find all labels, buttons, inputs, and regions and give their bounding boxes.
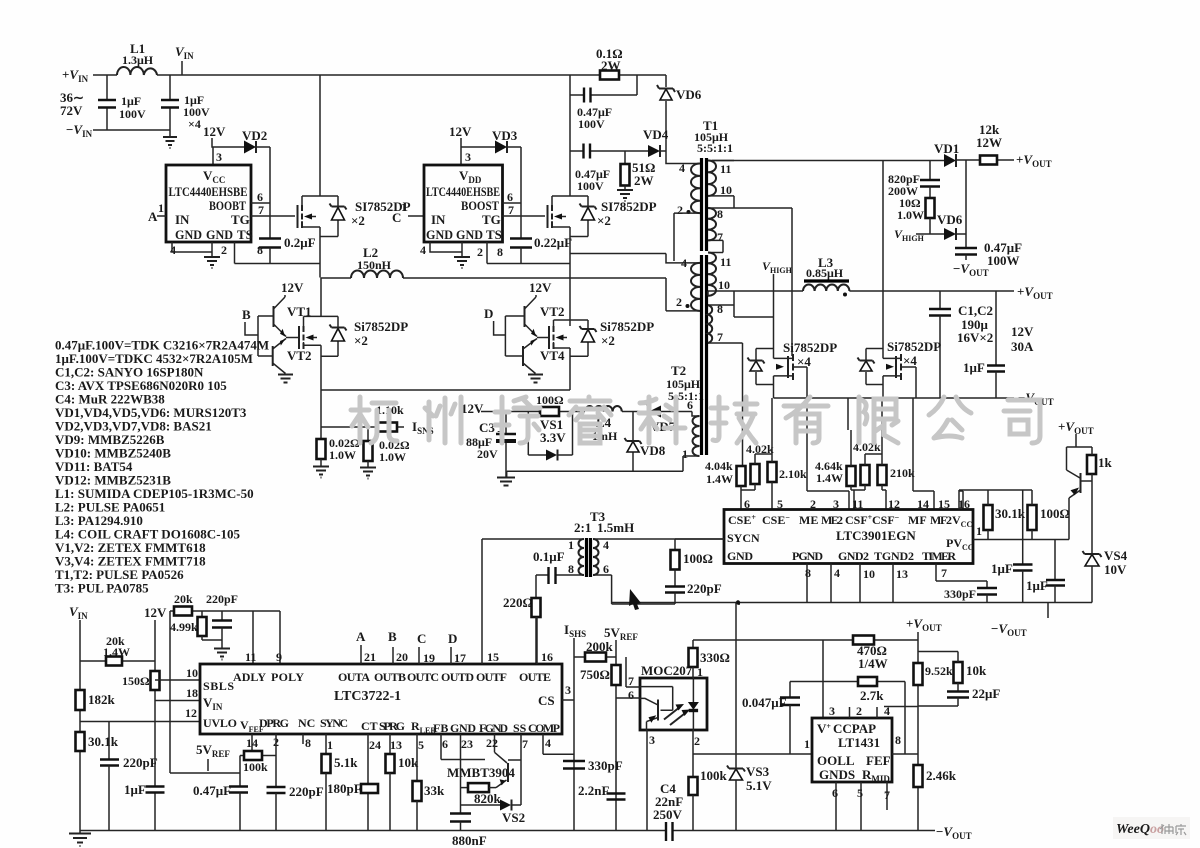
transformer T2 core	[702, 255, 707, 455]
svg-text:DPRG: DPRG	[259, 716, 289, 730]
svg-text:T2: T2	[671, 363, 686, 378]
capacitor C1 C2 190u	[939, 291, 941, 309]
svg-text:100W: 100W	[987, 253, 1020, 268]
svg-text:2.46k: 2.46k	[926, 768, 957, 783]
wire ISNS y427	[321, 390, 404, 427]
svg-text:2.10k: 2.10k	[779, 467, 807, 481]
capacitor 180pF (ct)	[367, 734, 369, 831]
capacitor 330pF (cs)	[563, 761, 585, 769]
diode body D2 (cell2)	[570, 196, 588, 237]
svg-text:1.4W: 1.4W	[816, 471, 843, 485]
transistor Q7 MOSFET (D cell)	[537, 337, 549, 339]
wire pin3 drop x823	[822, 640, 824, 718]
diode VS2	[461, 804, 522, 806]
resistor 820k	[461, 787, 469, 789]
svg-text:12V: 12V	[529, 280, 552, 295]
svg-text:VT4: VT4	[540, 348, 565, 363]
svg-text:2.7k: 2.7k	[860, 688, 884, 703]
capacitor 1uF 100V (first)	[98, 100, 116, 108]
svg-text:20V: 20V	[477, 447, 498, 461]
svg-text:TGND2: TGND2	[874, 549, 914, 563]
svg-text:9: 9	[276, 650, 282, 664]
wire source common y390	[321, 389, 570, 391]
svg-text:12V: 12V	[144, 605, 167, 620]
wire 470R feed y640	[693, 639, 918, 641]
svg-text:0.85μH: 0.85μH	[806, 266, 844, 280]
svg-text:100V: 100V	[578, 117, 605, 131]
wire rail A x320 upper	[319, 75, 321, 278]
svg-text:SBLS: SBLS	[203, 679, 234, 693]
wire pins 4,2 ground U	[172, 242, 212, 252]
svg-text:7: 7	[508, 203, 514, 217]
svg-text:1μF: 1μF	[121, 94, 141, 108]
svg-text:VT2: VT2	[540, 304, 565, 319]
svg-text:LTC3722-1: LTC3722-1	[334, 689, 401, 704]
transistor Q1 MOSFET SI7852DP #1	[297, 205, 299, 228]
svg-text:SPRG: SPRG	[379, 719, 405, 733]
svg-text:VD2: VD2	[242, 128, 267, 143]
svg-text:20k: 20k	[174, 592, 193, 606]
svg-text:COMP: COMP	[528, 721, 560, 735]
diode body D1 (cell1)	[320, 196, 338, 237]
capacitor 0.47uF 100V (upper)	[570, 75, 637, 95]
svg-text:7: 7	[717, 330, 723, 344]
svg-text:5.1k: 5.1k	[334, 755, 358, 770]
wire pins 11,9 up	[253, 611, 280, 664]
op-amp U1 LTC4440 #1 box	[166, 165, 251, 242]
svg-text:PGND: PGND	[792, 549, 823, 563]
capacitor 22uF	[947, 692, 969, 698]
svg-text:8: 8	[717, 207, 723, 221]
svg-text:3: 3	[216, 150, 222, 164]
svg-text:SI7852DP: SI7852DP	[601, 199, 657, 214]
ground driver1	[204, 257, 220, 268]
svg-text:1.4W: 1.4W	[706, 472, 733, 486]
resistor 210k	[878, 465, 887, 485]
svg-text:220pF: 220pF	[687, 581, 722, 596]
svg-text:5:5:1:1: 5:5:1:1	[668, 389, 704, 403]
svg-text:12V: 12V	[449, 124, 472, 139]
svg-text:UVLO: UVLO	[203, 716, 237, 730]
svg-text:GND2: GND2	[838, 549, 869, 563]
svg-text:5.1V: 5.1V	[746, 778, 772, 793]
svg-text:MMBT3904: MMBT3904	[447, 765, 515, 780]
svg-text:×2: ×2	[601, 333, 615, 348]
wire output rail y160	[712, 159, 1014, 162]
svg-text:750Ω: 750Ω	[580, 667, 610, 682]
svg-text:GND: GND	[727, 549, 753, 563]
svg-text:12V: 12V	[461, 401, 484, 416]
transistor VT2 (lower of B pair)	[272, 346, 274, 366]
resistor 10R 1.0W	[929, 187, 931, 199]
svg-text:7: 7	[628, 674, 634, 688]
svg-text:22μF: 22μF	[972, 686, 1000, 701]
resistor 0.02R 1.0W (left)	[320, 427, 322, 439]
op-amp U2 LTC4440 #2 box	[424, 165, 503, 242]
svg-text:CCPAP: CCPAP	[833, 721, 876, 736]
transformer T2 primary winding 4-2	[570, 254, 700, 263]
ground 0.02R right	[360, 468, 376, 479]
svg-text:19: 19	[423, 651, 435, 665]
wire boost vertical x270	[269, 147, 271, 238]
capacitor 1uF (pvcc 1)	[1022, 490, 1024, 565]
svg-text:5:5:1:1: 5:5:1:1	[697, 141, 733, 155]
svg-text:VD1: VD1	[934, 141, 959, 156]
svg-text:6: 6	[603, 562, 609, 576]
svg-text:Si7852DP: Si7852DP	[887, 339, 941, 354]
svg-text:4: 4	[603, 538, 609, 552]
diode VD2	[213, 146, 270, 148]
transistor Q5 (pvcc boost)	[1067, 434, 1093, 478]
capacitor 0.2uF	[259, 239, 281, 248]
svg-text:23: 23	[461, 737, 473, 751]
wire VS3 vertical	[735, 603, 737, 769]
svg-text:6: 6	[257, 190, 263, 204]
op-amp U3 LTC3901EGN box	[724, 510, 973, 564]
svg-text:POLY: POLY	[271, 670, 304, 684]
wire boost vertical x521	[520, 147, 522, 238]
wire LT1431 pin1 y754	[693, 753, 812, 755]
resistor 470R 1/4W	[853, 636, 874, 645]
svg-text:9.52k: 9.52k	[925, 664, 953, 678]
capacitor 1uF (pvcc 2)	[1054, 540, 1056, 581]
svg-text:180pF: 180pF	[327, 781, 362, 796]
capacitor 0.47uF 100V (lower)	[570, 150, 648, 152]
svg-text:GND: GND	[206, 227, 233, 242]
svg-text:1: 1	[568, 538, 574, 552]
diode VD8	[632, 412, 634, 441]
svg-text:1: 1	[976, 524, 982, 538]
svg-text:C: C	[417, 631, 426, 646]
svg-text:0.47μF: 0.47μF	[193, 783, 231, 798]
svg-text:VD4: VD4	[643, 127, 669, 142]
capacitor 220pF (uvlo)	[108, 722, 110, 760]
wire T2 8-10 tie to VHIGH	[734, 316, 774, 318]
svg-text:2: 2	[694, 734, 700, 748]
svg-text:1.3μH: 1.3μH	[122, 53, 154, 67]
capacitor 220pF (snubber)	[665, 587, 685, 593]
transformer T1 secondary winding 11-10	[708, 160, 734, 162]
ground VT4	[528, 375, 543, 383]
wire pin6 BOOST	[251, 202, 270, 204]
transistor VT4	[522, 346, 524, 366]
svg-text:17: 17	[454, 651, 466, 665]
wire -VOUT drop from rail	[1047, 603, 1049, 619]
svg-text:30.1k: 30.1k	[995, 506, 1026, 521]
svg-text:150Ω: 150Ω	[122, 674, 150, 688]
wire VHIGH vertical x773	[773, 274, 775, 349]
watermark weeqoo	[1113, 817, 1190, 839]
svg-text:0.22μF: 0.22μF	[534, 235, 572, 250]
svg-text:C1,C2: C1,C2	[958, 303, 993, 318]
svg-text:8: 8	[257, 243, 263, 257]
svg-text:TG: TG	[482, 212, 501, 227]
resistor 51R 2W	[624, 151, 626, 164]
wire 12V to pin3 (driver2)	[460, 138, 462, 165]
svg-text:×2: ×2	[354, 333, 368, 348]
svg-text:8: 8	[895, 733, 901, 747]
transistor Q4 sync MOSFET cell B	[866, 349, 883, 385]
svg-text:B: B	[388, 629, 397, 644]
svg-text:100Ω: 100Ω	[683, 551, 713, 566]
svg-text:8: 8	[717, 302, 723, 316]
wire x966 vertical	[965, 161, 967, 249]
svg-text:8: 8	[805, 566, 811, 580]
diode MOC LED	[692, 678, 694, 731]
wire 12V bias y411	[481, 411, 687, 413]
svg-text:10V: 10V	[1104, 562, 1127, 577]
resistor 12k 12W	[980, 156, 997, 165]
svg-text:×4: ×4	[797, 354, 811, 369]
svg-text:12: 12	[185, 706, 197, 720]
diode VS3 zener	[730, 769, 743, 780]
svg-text:8: 8	[568, 562, 574, 576]
svg-text:2W: 2W	[601, 58, 621, 73]
svg-text:Si7852DP: Si7852DP	[600, 319, 654, 334]
svg-text:C3: C3	[479, 420, 495, 435]
svg-text:FB: FB	[433, 721, 448, 735]
svg-text:2: 2	[677, 203, 683, 217]
svg-text:11: 11	[720, 255, 731, 269]
svg-text:OUTE: OUTE	[519, 670, 551, 684]
svg-text:VD6: VD6	[676, 87, 702, 102]
svg-text:GND: GND	[426, 227, 453, 242]
svg-text:11: 11	[720, 162, 731, 176]
capacitor 820pF 200W	[929, 161, 931, 181]
wire feedback vertical x918	[917, 640, 919, 831]
capacitor 0.47uF (vref)	[239, 773, 241, 787]
svg-text:100V: 100V	[119, 107, 146, 121]
svg-text:A: A	[356, 629, 366, 644]
transistor Q3 sync MOSFET cell A	[756, 349, 774, 385]
svg-text:T3: PUL PA0785: T3: PUL PA0785	[55, 581, 149, 596]
svg-text:7: 7	[258, 203, 264, 217]
svg-text:4: 4	[545, 736, 551, 750]
svg-text:LTC3901EGN: LTC3901EGN	[836, 528, 916, 543]
svg-text:4: 4	[681, 256, 687, 270]
arrow LED light 1	[664, 709, 678, 720]
svg-text:6: 6	[507, 190, 513, 204]
wire bias return y471	[507, 471, 683, 477]
svg-text:4.04k: 4.04k	[705, 459, 733, 473]
ground 0.02R left	[313, 467, 329, 478]
pointer blob	[629, 589, 641, 610]
svg-text:5: 5	[418, 738, 424, 752]
svg-text:72V: 72V	[60, 103, 83, 118]
svg-text:ADLY: ADLY	[233, 670, 266, 684]
svg-text:IN: IN	[431, 212, 446, 227]
svg-text:C: C	[392, 210, 401, 225]
svg-text:6: 6	[832, 786, 838, 800]
svg-text:5: 5	[857, 786, 863, 800]
svg-text:FEF: FEF	[866, 753, 891, 768]
svg-text:1.0W: 1.0W	[379, 450, 406, 464]
svg-text:16V×2: 16V×2	[957, 330, 993, 345]
resistor 100k (moc)	[689, 777, 698, 795]
diode VD6 (top)	[665, 75, 667, 151]
svg-text:330Ω: 330Ω	[700, 650, 730, 665]
svg-text:1k: 1k	[1098, 455, 1113, 470]
svg-text:NC: NC	[298, 716, 315, 730]
svg-text:TG: TG	[231, 212, 250, 227]
ground input	[163, 137, 177, 148]
wire T3 top y539	[482, 538, 724, 540]
svg-text:VS3: VS3	[746, 764, 770, 779]
ground VIN rail	[69, 834, 91, 847]
svg-text:33k: 33k	[424, 783, 445, 798]
wire rail A lower	[320, 278, 322, 391]
svg-text:10: 10	[186, 666, 198, 680]
svg-text:30.1k: 30.1k	[88, 734, 119, 749]
svg-text:2: 2	[221, 243, 227, 257]
svg-text:×4: ×4	[903, 353, 917, 368]
svg-text:880nF: 880nF	[452, 833, 487, 848]
svg-text:VS2: VS2	[502, 810, 525, 825]
wire 12V rail x155	[154, 620, 156, 831]
capacitor 880nF	[460, 760, 462, 814]
svg-text:2:1: 2:1	[574, 520, 591, 535]
svg-text:OUTF: OUTF	[476, 670, 507, 684]
svg-text:1: 1	[804, 737, 810, 751]
svg-text:250V: 250V	[653, 807, 683, 822]
svg-text:LTC4440EHSBE: LTC4440EHSBE	[426, 184, 500, 199]
resistor 100k (vref)	[240, 734, 276, 756]
wire ISHS vertical x574	[573, 638, 575, 831]
wire top rail y75	[93, 74, 666, 76]
wire +VOUT main y291	[730, 290, 1014, 292]
resistor 2.7k	[858, 677, 877, 686]
resistor 10k (fb)	[954, 662, 963, 683]
svg-text:MF: MF	[908, 513, 927, 527]
diode body (D cell)	[570, 320, 588, 356]
wire 5VREF vertical x616	[615, 640, 617, 831]
svg-text:×4: ×4	[188, 117, 201, 131]
wire LT1431 bottom pins	[836, 782, 887, 831]
svg-text:100k: 100k	[243, 760, 268, 774]
svg-text:OOLL: OOLL	[817, 753, 855, 768]
transformer T2 secondary winding 11-10	[708, 253, 716, 296]
svg-text:TIMER: TIMER	[922, 549, 956, 563]
transformer T1 primary winding 4-2	[666, 151, 700, 164]
svg-text:1: 1	[158, 201, 164, 215]
wire T3 sec 6 to y604	[593, 575, 675, 604]
svg-text:3: 3	[565, 683, 571, 697]
resistor 100R (3901)	[1028, 505, 1037, 530]
transistor VT1	[273, 306, 275, 327]
transistor Q6 MOSFET (B cell)	[286, 337, 299, 339]
svg-text:12W: 12W	[976, 135, 1002, 150]
svg-text:220Ω: 220Ω	[503, 595, 533, 610]
transformer T3 core	[587, 538, 591, 577]
svg-text:7: 7	[941, 566, 947, 580]
wire -VIN y130	[93, 130, 170, 136]
svg-text:ME2: ME2	[821, 513, 843, 527]
svg-text:10: 10	[718, 278, 730, 292]
resistor 330R	[692, 640, 694, 648]
svg-text:GND: GND	[175, 227, 202, 242]
svg-text:11: 11	[245, 650, 256, 664]
svg-text:12V: 12V	[1011, 324, 1034, 339]
transistor MOC phototransistor	[640, 687, 673, 711]
resistor 0.1R 2W sense	[600, 71, 619, 80]
svg-text:7: 7	[717, 230, 723, 244]
resistor 100R (snubber)	[674, 539, 676, 550]
capacitor 1uF 100V x4 (second)	[161, 100, 179, 108]
svg-text:6: 6	[628, 688, 634, 702]
wire SYCN from T3	[675, 538, 724, 540]
resistor 30.1k (uvlo)	[76, 732, 85, 751]
svg-text:Si7852DP: Si7852DP	[354, 319, 408, 334]
svg-text:2: 2	[856, 704, 862, 718]
svg-text:1μF: 1μF	[991, 561, 1013, 576]
wire pin6 BOOST (driver2)	[503, 202, 522, 204]
svg-text:220pF: 220pF	[123, 755, 158, 770]
diode VD3	[461, 146, 521, 148]
wire pin2 pin3 entries	[807, 398, 849, 509]
svg-text:10: 10	[720, 183, 732, 197]
svg-text:VD3: VD3	[492, 128, 518, 143]
svg-text:24: 24	[369, 738, 381, 752]
svg-text:LTC4440EHSBE: LTC4440EHSBE	[169, 184, 248, 199]
svg-text:ME: ME	[799, 513, 818, 527]
wire -VOUT rail y398	[774, 397, 1015, 399]
svg-text:Si7852DP: Si7852DP	[783, 340, 837, 355]
svg-text:6: 6	[442, 737, 448, 751]
svg-text:1μF: 1μF	[963, 360, 985, 375]
svg-text:4: 4	[834, 566, 840, 580]
transformer T2 secondary winding 8-7	[708, 291, 734, 317]
svg-text:VD8: VD8	[640, 443, 666, 458]
svg-text:WeeQoo: WeeQoo	[1116, 822, 1164, 837]
svg-text:220pF: 220pF	[206, 592, 238, 606]
capacitor 220pF (dprg)	[275, 734, 277, 787]
svg-text:4.99k: 4.99k	[170, 620, 198, 634]
svg-text:FGND: FGND	[479, 721, 508, 735]
svg-text:0.047μF: 0.047μF	[742, 695, 787, 710]
svg-text:10k: 10k	[966, 663, 987, 678]
wire LTC3901 bottom pins	[807, 564, 893, 603]
inductor L1	[117, 67, 157, 75]
svg-text:22: 22	[486, 736, 498, 750]
transistor VT2 (upper of D pair)	[524, 306, 526, 327]
wire pin16 entry	[959, 491, 963, 509]
resistor 10k (sprg)	[389, 734, 391, 754]
svg-text:3: 3	[649, 733, 655, 747]
capacitor 0.47uF 100W	[955, 248, 977, 255]
transistor Q2 MOSFET SI7852DP #2	[547, 205, 549, 228]
wire VIN rail x80	[79, 620, 81, 833]
svg-text:1.5mH: 1.5mH	[597, 520, 634, 535]
op-amp U6 LT1431 box	[812, 718, 892, 782]
svg-text:30A: 30A	[1011, 339, 1034, 354]
wire CS pin3	[562, 699, 574, 701]
svg-text:820k: 820k	[474, 791, 502, 806]
svg-text:D: D	[448, 631, 457, 646]
svg-text:×2: ×2	[351, 213, 365, 228]
resistor 2.46k	[914, 765, 923, 787]
svg-text:2.2nF: 2.2nF	[578, 783, 609, 798]
svg-text:0.2μF: 0.2μF	[284, 235, 316, 250]
diode body (B cell)	[321, 316, 338, 356]
svg-text:13: 13	[390, 738, 402, 752]
svg-text:150nH: 150nH	[357, 258, 392, 272]
resistor 33k (rleb)	[416, 734, 418, 781]
svg-text:7: 7	[522, 737, 528, 751]
watermark main	[351, 397, 1040, 443]
svg-text:IN: IN	[175, 212, 190, 227]
svg-text:SS: SS	[513, 721, 527, 735]
svg-text:3.3V: 3.3V	[540, 430, 566, 445]
